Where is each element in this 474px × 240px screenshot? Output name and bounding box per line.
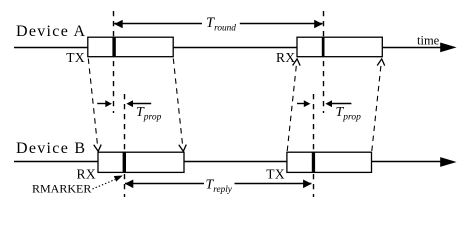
RMARKER label	[32, 181, 91, 195]
RMARKER tick A2	[322, 37, 325, 57]
svg-text:Device B: Device B	[16, 140, 86, 157]
RX label (device B)	[76, 166, 96, 181]
device A label	[16, 23, 86, 40]
propagation path S4 (B TX right edge to A RX right edge)	[372, 59, 386, 151]
T_prop value label (right)	[336, 105, 362, 123]
T_prop right span arrow (into device B marker)	[297, 100, 310, 107]
RX label (device A)	[276, 50, 296, 65]
RMARKER tick B1	[123, 152, 126, 172]
time axis arrowhead (device B)	[440, 157, 456, 167]
svg-text:time: time	[417, 34, 440, 48]
T_prop left span arrow (into device A marker)	[97, 100, 112, 107]
T_prop value label (left)	[136, 105, 162, 123]
T_round value label	[206, 15, 236, 34]
svg-text:RX: RX	[276, 50, 296, 65]
device B label	[16, 140, 86, 157]
dashed marker line A1 (TX RMARKER time, device A)	[113, 11, 115, 113]
svg-text:RMARKER: RMARKER	[32, 181, 91, 195]
time axis arrowhead (device A)	[440, 43, 456, 53]
svg-text:RX: RX	[76, 166, 96, 181]
frame box B1 (RX frame, device B)	[98, 152, 184, 172]
T_reply value label	[206, 178, 233, 195]
svg-text:Device A: Device A	[16, 23, 86, 40]
dashed marker line A2 (RX RMARKER time, device A)	[323, 11, 325, 113]
T_prop right span arrow (into device A marker)	[325, 100, 351, 107]
TX label (device B)	[266, 166, 285, 181]
frame box A2 (RX frame, device A)	[297, 37, 382, 57]
time label	[417, 34, 440, 48]
dashed marker line B2 (TX RMARKER time, device B)	[313, 94, 315, 197]
T_reply span arrow	[125, 180, 312, 189]
RMARKER tick A1	[112, 37, 115, 57]
svg-text:TX: TX	[66, 50, 85, 65]
RMARKER pointer (dotted arrow to B1 tick)	[93, 176, 123, 190]
RMARKER tick B2	[312, 152, 315, 172]
frame box B2 (TX frame, device B)	[287, 152, 372, 172]
device A timeline wire	[14, 47, 443, 49]
propagation path S2 (A TX right edge to B RX right edge)	[173, 59, 187, 152]
svg-text:TX: TX	[266, 166, 285, 181]
frame box A1 (TX frame, device A)	[88, 37, 173, 57]
T_prop left span arrow (into device B marker)	[126, 100, 151, 107]
dashed marker line B1 (RX RMARKER time, device B)	[124, 94, 126, 197]
propagation path S3 (B TX left edge to A RX left edge)	[287, 59, 301, 151]
TX label (device A)	[66, 50, 85, 65]
device B timeline wire	[14, 161, 443, 163]
T_round span arrow	[114, 20, 323, 29]
propagation path S1 (A TX left edge to B RX left edge)	[88, 59, 102, 152]
